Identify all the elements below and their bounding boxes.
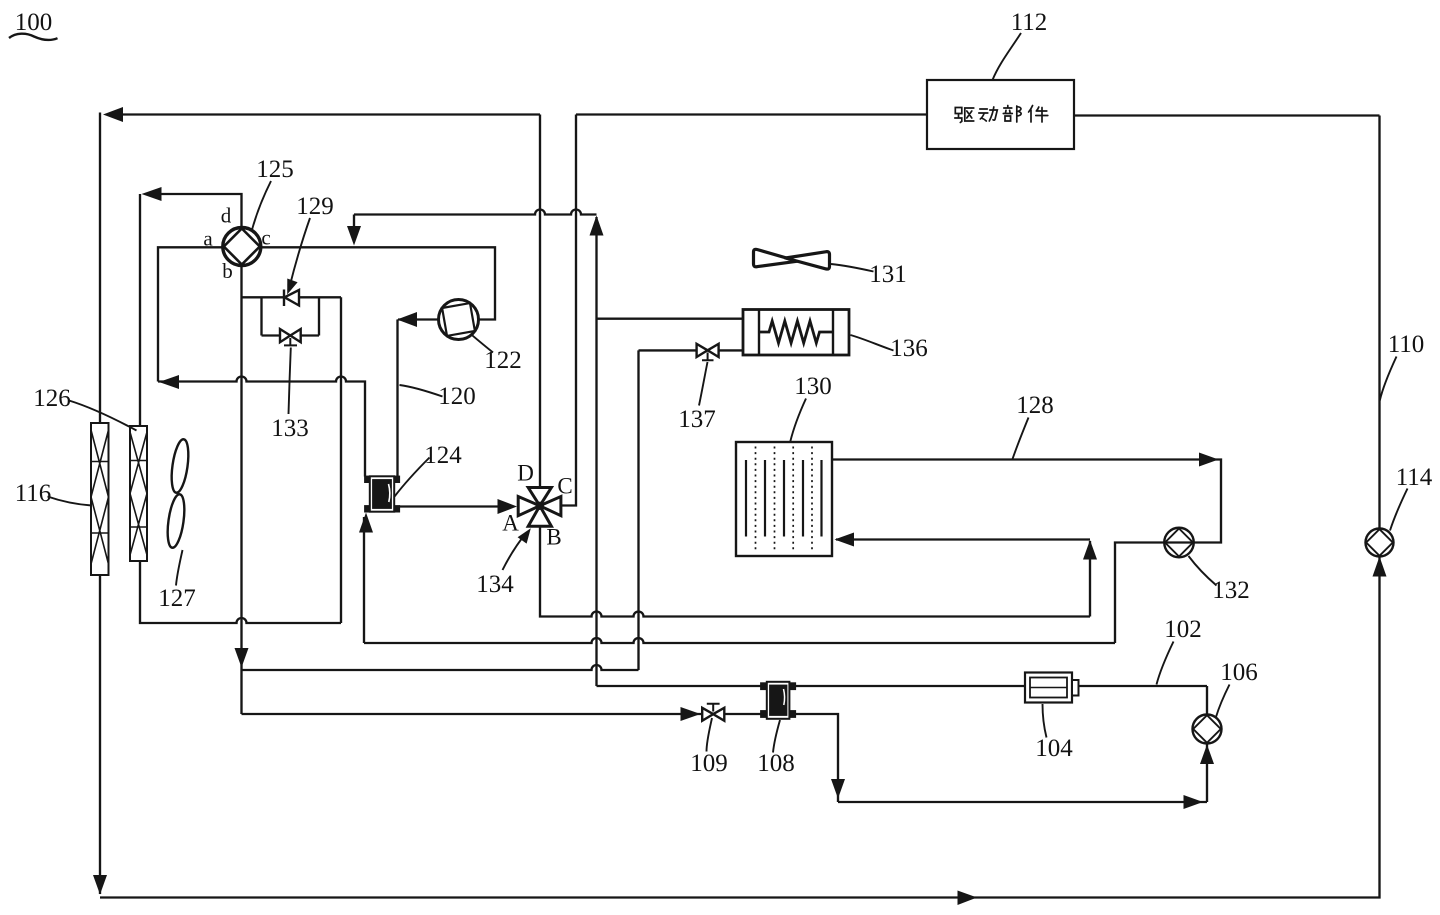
flow arrow up into pump 114: [1373, 557, 1387, 577]
expansion valve 137: [697, 344, 719, 361]
wire chiller 108 top line to battery: [597, 685, 1208, 687]
flow arrow down on chiller return leg: [831, 779, 845, 799]
wire riser into HX 124 left-bottom: [363, 517, 365, 643]
flow arrow right on bottom border: [958, 891, 978, 906]
wire valve loop left side: [260, 297, 262, 335]
compressor 122: [439, 300, 479, 340]
wire stub into compressor line: [353, 215, 355, 232]
wire four-way valve C riser: [561, 115, 576, 506]
svg-text:124: 124: [424, 442, 462, 469]
svg-text:120: 120: [438, 383, 476, 410]
svg-text:104: 104: [1035, 735, 1073, 762]
svg-text:100: 100: [15, 9, 53, 36]
leader line 127: [176, 550, 183, 586]
wire pump 125 port c to pump 122: [261, 247, 496, 319]
svg-text:109: 109: [690, 750, 728, 777]
fan 126: [130, 426, 147, 561]
wire pump 125 port d to fan branch: [146, 194, 242, 228]
svg-text:137: 137: [678, 406, 716, 433]
leader line 130: [790, 399, 806, 442]
leader line 120: [400, 385, 443, 397]
flow arrow right on radiator top line: [1199, 453, 1219, 467]
svg-text:110: 110: [1388, 331, 1425, 358]
wire valve loop bottom: [262, 334, 320, 336]
fan 116: [91, 423, 109, 575]
svg-text:106: 106: [1220, 659, 1258, 686]
wire valve loop right riser: [340, 297, 342, 623]
wire four-way valve B loop with hops: [540, 526, 1090, 617]
svg-text:129: 129: [296, 193, 334, 220]
wire pump 125 port a leg: [158, 247, 223, 381]
svg-text:b: b: [222, 259, 233, 283]
leader line 125: [252, 181, 271, 231]
pump 125 four-way reversing pump: [223, 228, 261, 266]
wire heater 136 top feed: [597, 318, 744, 320]
four-way valve 134: [518, 488, 561, 527]
wire chiller 108 bottom right leg: [795, 714, 838, 802]
wire four-way valve D riser: [539, 115, 541, 487]
svg-text:C: C: [557, 474, 572, 499]
leader line 133: [289, 348, 291, 415]
flow arrow right on battery return: [1184, 795, 1204, 809]
leader line 108: [773, 720, 780, 753]
wire node y214 with crossover hops: [354, 210, 597, 215]
wire radiator 130 top out to pump 132: [832, 460, 1221, 644]
wire check valve loop top: [242, 296, 342, 298]
leader arrowhead 129: [287, 279, 297, 295]
wire pump 125 port b drop: [240, 266, 242, 714]
wire B loop riser to radiator: [1089, 541, 1091, 617]
wire right border lower and bottom border: [100, 557, 1380, 898]
fan 127: [165, 438, 191, 549]
svg-text:134: 134: [476, 571, 514, 598]
flow arrow up into pump 106: [1200, 745, 1214, 765]
flow arrow left at top header: [103, 107, 123, 122]
check valve 129: [284, 290, 299, 307]
wire fan 126 bottom to valve loop with hop: [140, 561, 341, 623]
wire node y382 with hops to HX 124 left-top: [158, 377, 365, 477]
svg-text:112: 112: [1011, 9, 1048, 36]
wire node y714 through valve 109: [242, 713, 762, 715]
flow arrow up into HX 124 left-bottom: [359, 513, 373, 533]
svg-text:126: 126: [33, 385, 71, 412]
flow arrow up at riser x596: [590, 216, 604, 236]
flow arrow left at port d branch: [142, 187, 162, 201]
wire HX 124 to four-way valve A: [399, 505, 501, 507]
expansion valve 133: [280, 329, 301, 345]
wire valve loop right side: [318, 297, 320, 335]
wire radiator return long line with hops: [364, 638, 1115, 643]
flow arrow up on B loop riser: [1083, 540, 1097, 560]
leader line 128: [1013, 418, 1029, 460]
wire battery to pump 106: [1206, 686, 1208, 715]
wavy underline of 100: [9, 34, 58, 40]
wire pump 106 down leg: [1206, 744, 1208, 803]
heat exchanger 124: [365, 476, 399, 511]
leader line 104: [1043, 704, 1047, 738]
wire battery return bottom: [838, 801, 1207, 803]
svg-text:a: a: [203, 227, 213, 251]
wire heater 136 bottom via valve 137: [639, 349, 744, 351]
wire top header left to left border: [107, 113, 540, 115]
svg-text:A: A: [502, 511, 519, 536]
svg-text:116: 116: [15, 480, 52, 507]
svg-text:114: 114: [1396, 464, 1433, 491]
svg-text:108: 108: [757, 750, 795, 777]
leader line 116: [48, 497, 92, 506]
leader line 136: [851, 335, 894, 351]
svg-text:133: 133: [271, 415, 309, 442]
pump 106: [1193, 715, 1222, 744]
flow arrow down at left border bottom: [93, 875, 107, 895]
leader line 132: [1189, 556, 1217, 586]
svg-text:102: 102: [1164, 616, 1202, 643]
svg-text:B: B: [546, 525, 561, 550]
svg-text:131: 131: [869, 261, 907, 288]
leader line 106: [1216, 685, 1230, 718]
leader line 129: [290, 218, 311, 287]
wire valve 137 drop riser: [637, 350, 639, 670]
wire drive unit to right border: [1074, 114, 1380, 116]
flow arrow down into compressor line: [347, 226, 361, 246]
wire 120 refrigerant drop to HX 124 right-top: [396, 320, 398, 478]
PTC heater 136: [743, 310, 849, 356]
flow arrow left at pump 122 outlet: [397, 312, 417, 327]
leader line 131: [831, 264, 874, 272]
leader line 124: [395, 458, 430, 497]
leader line 109: [707, 718, 713, 752]
leader line 102: [1157, 642, 1174, 685]
flow arrow right into four-way valve A: [498, 499, 518, 514]
leader line 134: [503, 533, 527, 571]
svg-text:c: c: [261, 226, 270, 250]
radiator 130: [736, 442, 832, 556]
wire top header right into drive unit: [576, 113, 927, 115]
wire into radiator 130 right side: [836, 538, 1090, 540]
chiller 108: [761, 682, 795, 719]
fan 131: [754, 249, 830, 269]
leader line 114: [1390, 489, 1408, 531]
svg-text:136: 136: [890, 335, 928, 362]
battery 104: [1025, 673, 1079, 703]
leader arrowhead 134: [518, 528, 531, 543]
svg-text:130: 130: [794, 373, 832, 400]
stop valve 109: [702, 704, 724, 721]
wire left border: [99, 113, 101, 895]
svg-text:d: d: [221, 204, 232, 228]
leader line 112: [993, 33, 1022, 80]
leader line 122: [471, 334, 494, 353]
svg-text:127: 127: [158, 585, 196, 612]
svg-text:D: D: [517, 461, 534, 486]
leader line 137: [699, 362, 708, 406]
leader line 110: [1380, 357, 1397, 401]
drive unit 112 label text (drawn CJK strokes): [955, 106, 1048, 123]
pump 114: [1366, 529, 1394, 557]
pump 132: [1164, 528, 1194, 558]
flow arrow left at node y382 corner: [159, 375, 179, 389]
flow arrow down at node y670: [235, 648, 249, 668]
wire fan 126 drop: [139, 194, 141, 426]
svg-text:132: 132: [1212, 577, 1250, 604]
wire right border upper to pump 114: [1378, 116, 1380, 530]
flow arrow right before valve 109: [681, 707, 701, 721]
leader line 126: [69, 401, 137, 431]
wire riser x596: [595, 217, 597, 686]
wire node y670 with hop: [242, 665, 639, 670]
svg-text:128: 128: [1016, 392, 1054, 419]
svg-text:125: 125: [256, 156, 294, 183]
drive unit 112 box: [927, 80, 1074, 149]
flow arrow left into radiator 130: [835, 533, 855, 547]
